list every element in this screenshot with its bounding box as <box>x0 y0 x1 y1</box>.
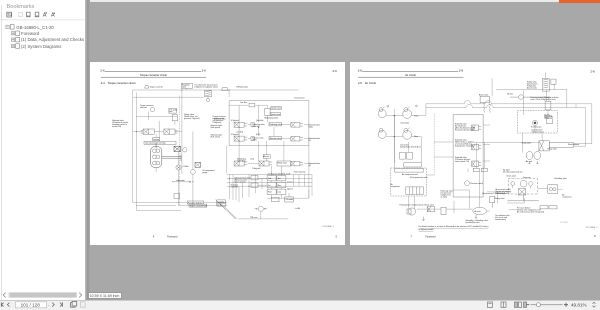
svg-text:Oil cooler: Oil cooler <box>286 199 294 201</box>
svg-text:2-6: 2-6 <box>202 68 207 72</box>
svg-text:Transmission: Transmission <box>294 97 305 99</box>
svg-text:Unloading valve: Unloading valve <box>554 178 567 180</box>
svg-text:(for dry compressed air): (for dry compressed air) <box>503 171 522 173</box>
svg-text:2-8: 2-8 <box>590 69 595 73</box>
svg-text:pressure: 7kg/cm2): pressure: 7kg/cm2) <box>184 118 200 120</box>
svg-text:Fwd: Fwd <box>268 192 271 194</box>
svg-text:8: 8 <box>594 234 596 238</box>
svg-text:valve: valve <box>182 87 186 89</box>
svg-text:Parking brake chamber: Parking brake chamber <box>400 205 419 207</box>
svg-text:Air tank: Air tank <box>526 160 532 163</box>
svg-text:(installed) air tank: (installed) air tank <box>466 221 480 224</box>
svg-text:converter: converter <box>231 185 239 188</box>
svg-text:gauge: gauge <box>202 172 207 174</box>
svg-text:2-8: 2-8 <box>459 68 464 72</box>
svg-text:(1st): (1st) <box>287 172 291 175</box>
svg-text:Torque converter feed: Torque converter feed <box>190 205 207 208</box>
svg-text:Pressure switch: Pressure switch <box>470 182 483 185</box>
svg-text:Foreword: Foreword <box>425 236 436 239</box>
svg-text:(set 8.5): (set 8.5) <box>237 131 244 134</box>
svg-text:217-0880 2: 217-0880 2 <box>586 227 598 229</box>
svg-text:Governor: Governor <box>523 177 531 179</box>
svg-text:(F-R): (F-R) <box>256 134 261 136</box>
svg-text:compressor: compressor <box>391 186 401 188</box>
svg-text:Rev: Rev <box>278 185 281 187</box>
svg-text:valve. ON at 4.5kg/cm2 or less: valve. ON at 4.5kg/cm2 or less) <box>530 98 555 101</box>
svg-text:Quick return: Quick return <box>271 113 281 116</box>
svg-text:(2nd speed): (2nd speed) <box>211 127 221 129</box>
svg-text:Foreword: Foreword <box>167 236 178 239</box>
svg-text:inlet port: inlet port <box>140 106 147 109</box>
svg-text:kg/cm2: kg/cm2 <box>287 188 293 190</box>
svg-text:Low: Low <box>278 192 282 194</box>
svg-text:Lubrication: Lubrication <box>176 179 185 182</box>
svg-text:(F-R select): (F-R select) <box>211 136 221 139</box>
svg-text:Oil filter: Oil filter <box>183 165 189 168</box>
svg-text:Use Brake chamber or air dryer: Use Brake chamber or air dryer is (Mount… <box>418 225 488 228</box>
svg-text:Quick return: Quick return <box>272 107 282 110</box>
svg-text:maintenance): maintenance) <box>495 218 506 221</box>
svg-text:To press.: To press. <box>217 201 225 203</box>
svg-text:Low air pressure warning: Low air pressure warning <box>145 142 165 144</box>
svg-text:Low air: Low air <box>153 139 159 141</box>
svg-text:Selector valve: Selector valve <box>270 137 281 140</box>
svg-text:3rd: 3rd <box>278 178 281 180</box>
svg-text:(F-R): (F-R) <box>252 140 257 142</box>
svg-text:Brake valve: Brake valve <box>479 94 488 96</box>
svg-text:49.81%: 49.81% <box>571 303 587 308</box>
svg-text:(1st): (1st) <box>251 158 255 161</box>
svg-text:compressor: compressor <box>562 197 572 199</box>
svg-text:-: - <box>48 302 50 307</box>
svg-text:5: 5 <box>336 235 338 239</box>
svg-text:Relief valve: Relief valve <box>278 162 287 164</box>
svg-text:(F): (F) <box>308 140 311 142</box>
svg-text:Torque converter: Torque converter <box>150 85 164 88</box>
svg-text:7: 7 <box>410 235 412 239</box>
svg-text:2-5 Air circuit: 2-5 Air circuit <box>358 81 376 85</box>
svg-text:4: 4 <box>153 235 155 239</box>
svg-text:turned ON): turned ON) <box>112 125 121 128</box>
svg-text:Quick release valve: Quick release valve <box>418 205 434 207</box>
svg-text:Torque converter circuit: Torque converter circuit <box>140 73 167 77</box>
svg-text:valve (1st): valve (1st) <box>237 160 246 163</box>
svg-text:Rear: Rear <box>414 136 418 138</box>
svg-text:Transmission: Transmission <box>531 126 542 128</box>
svg-text:Accum.: Accum. <box>264 155 270 158</box>
svg-text:From oil pump: From oil pump <box>294 172 305 174</box>
svg-text:Check valve: Check valve <box>506 175 516 177</box>
svg-text:Forward or declutched): Forward or declutched) <box>455 128 474 131</box>
svg-text:Air tank: Air tank <box>475 210 481 213</box>
svg-text:Reducing valve: Reducing valve <box>270 124 282 126</box>
svg-text:2-6: 2-6 <box>100 68 105 72</box>
svg-text:T/M case: T/M case <box>250 217 257 219</box>
svg-text:Relay valve: Relay valve <box>522 143 531 145</box>
svg-text:(R): (R) <box>308 165 311 167</box>
svg-text:Slack adjuster: Slack adjuster <box>568 143 580 146</box>
svg-text:2-8: 2-8 <box>358 68 363 72</box>
svg-text:Line filter: Line filter <box>240 101 248 104</box>
svg-text:Disc brake: Disc brake <box>401 123 410 125</box>
svg-text:(2nd-3rd): (2nd-3rd) <box>256 120 264 122</box>
svg-text:Air circuit: Air circuit <box>405 73 416 77</box>
svg-text:solenoid valve): solenoid valve) <box>532 131 544 133</box>
svg-text:(2nd): (2nd) <box>308 126 313 128</box>
svg-text:(2nd-3rd): (2nd-3rd) <box>252 126 260 128</box>
svg-text:Air tank pressure (4.5/7.5 kg/: Air tank pressure (4.5/7.5 kg/cm2) <box>517 210 544 213</box>
svg-text:217-0880 1: 217-0880 1 <box>322 226 334 228</box>
svg-text:Pressure feed line: Pressure feed line <box>188 202 202 204</box>
svg-text:T/M lubrication: T/M lubrication <box>236 85 248 88</box>
svg-text:Modulating valve: Modulating valve <box>265 117 279 120</box>
svg-text:(for air tank): (for air tank) <box>527 86 537 89</box>
svg-text:To T/C: To T/C <box>217 205 223 207</box>
svg-text:Safety valve: Safety valve <box>495 197 505 200</box>
svg-text:signal: signal <box>544 118 549 120</box>
svg-text:3.5kg/cm2: 3.5kg/cm2 <box>231 134 239 136</box>
svg-text:4.5kg/cm2: 4.5kg/cm2 <box>231 120 239 122</box>
svg-text:4-4.5kg/cm2 (2nd/3rd): 4-4.5kg/cm2 (2nd/3rd) <box>268 173 286 175</box>
svg-text:101 / 128: 101 / 128 <box>21 303 41 308</box>
svg-text:Air line: Air line <box>507 92 513 95</box>
svg-text:4-Port protection valve: 4-Port protection valve <box>410 176 428 179</box>
svg-text:Relay valve: Relay valve <box>548 149 557 151</box>
svg-text:Front: Front <box>414 114 419 117</box>
svg-text:2-4 Torque converter circui: 2-4 Torque converter circuit <box>101 81 136 85</box>
svg-text:2nd: 2nd <box>268 178 271 180</box>
svg-text:Solenoid valve: Solenoid valve <box>214 118 226 120</box>
svg-text:8.5kg/cm2 at regulator valve): 8.5kg/cm2 at regulator valve) <box>194 86 218 89</box>
svg-text:select switch ON): select switch ON) <box>455 160 469 163</box>
svg-text:braking force released): braking force released) <box>455 146 474 148</box>
svg-text:217-0880: 217-0880 <box>560 222 568 224</box>
svg-text:port: port <box>169 110 173 113</box>
svg-text:1.5-2.0: 1.5-2.0 <box>287 182 293 184</box>
svg-text:(Set pressure 7.0-8.5kg/cm2): (Set pressure 7.0-8.5kg/cm2) <box>482 192 506 195</box>
svg-text:air tank): air tank) <box>441 196 448 199</box>
svg-text:2-3kg/cm2: 2-3kg/cm2 <box>252 168 260 170</box>
svg-text:Safety Brake Unit (S.B.U): Safety Brake Unit (S.B.U) <box>400 145 421 148</box>
svg-text:Air compressor unit: Air compressor unit <box>402 173 418 176</box>
svg-text:on highway model): on highway model) <box>418 229 433 231</box>
svg-text:2-6: 2-6 <box>333 69 338 73</box>
svg-text:5.5kg/cm2): 5.5kg/cm2) <box>212 122 221 124</box>
